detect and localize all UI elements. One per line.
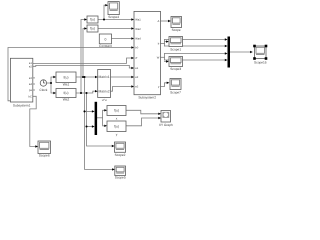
wire Subsystem1 port2 to Subsystem2 in6 [33, 65, 131, 68]
arrow into Mux2 in1 [92, 110, 95, 112]
wire Wa1 output to MatrixGain in1 [76, 76, 95, 78]
arrow into Mux1 in3 [225, 52, 228, 54]
Subsystem1 port stubs [33, 77, 35, 79]
junction dots [50, 18, 105, 127]
Fcn block f(u)2 [87, 25, 98, 32]
svg-text:Wa1: Wa1 [63, 82, 70, 86]
arrow into Subsystem2 in1 [131, 18, 134, 20]
svg-text:iT: iT [135, 57, 138, 60]
arrow into Wa2 [53, 92, 56, 94]
Clock block [40, 80, 46, 86]
svg-text:e2: e2 [135, 76, 138, 79]
arrow into Scope6 [35, 145, 38, 147]
arrow into f(u)y [104, 125, 107, 127]
svg-text:Scope3: Scope3 [170, 67, 181, 71]
wire Constant output to Subsystem2 in3 [112, 38, 132, 40]
wire Subsystem2 out1 to Scope [161, 20, 169, 22]
svg-text:Constant: Constant [99, 44, 112, 48]
svg-text:Scope16: Scope16 [254, 60, 267, 64]
svg-text:Scope2: Scope2 [115, 153, 126, 157]
arrow into Mux1 in1 [225, 38, 228, 40]
scope Scope1 block [169, 37, 183, 47]
wire Mux2 output split to f(u)x f(u)y [97, 117, 103, 119]
Fcn block Wa2 [56, 89, 76, 98]
scope Scope4 block [108, 2, 119, 15]
svg-text:Clock: Clock [39, 88, 47, 92]
svg-text:Matrix1: Matrix1 [99, 75, 110, 79]
svg-text:Scope7: Scope7 [170, 90, 181, 94]
arrow into Subsystem2 in8 [131, 85, 134, 87]
wire branch up to Scope4 [104, 5, 105, 19]
arrow into f(u)1 [84, 18, 87, 20]
arrow into XY Graph in2 [158, 117, 161, 119]
Fcn block f(u)1 [87, 16, 98, 23]
svg-text:Subsystem2: Subsystem2 [138, 95, 156, 99]
wire f(u)y output to XY Graph in2 [126, 118, 158, 126]
svg-text:b0: b0 [135, 47, 138, 50]
arrow into Subsystem2 in7 [131, 76, 134, 78]
arrow into Subsystem2 in6 [131, 67, 134, 69]
arrowheads [35, 4, 253, 171]
svg-text:Scope5: Scope5 [115, 176, 126, 180]
scope Scope5 block (bottom) [115, 166, 126, 176]
arrow into Subsystem2 in2 [131, 27, 134, 29]
arrow into Scope2 [112, 145, 115, 147]
wire Subsystem2 out3 fan to Mux1 in3,in4 [161, 56, 165, 58]
svg-text:e2: e2 [29, 65, 32, 68]
svg-text:Wa2: Wa2 [135, 28, 141, 31]
svg-text:Matrix2: Matrix2 [99, 89, 110, 93]
arrow into Subsystem2 in3 [131, 37, 134, 39]
arrow into Mux1 in4 [225, 59, 228, 61]
arrow into f(u)x [104, 109, 107, 111]
scope Scope6 block (bottom left) [38, 141, 51, 154]
XY Graph block [161, 111, 171, 123]
wire Subsystem2 out4 to Scope7 [161, 83, 167, 87]
svg-text:e3: e3 [135, 86, 138, 89]
svg-text:Subsystem1: Subsystem1 [13, 104, 31, 108]
svg-text:e1: e1 [135, 67, 138, 70]
arrow into Subsystem2 in5 [131, 57, 134, 59]
arrow into Scope16 [250, 51, 253, 53]
wire vertical V2 up to f(u)2 input [83, 29, 84, 78]
wire branch V3 to Mux2 in1 [85, 110, 93, 112]
svg-text:f(u): f(u) [90, 18, 95, 22]
svg-text:Scope: Scope [172, 28, 181, 32]
wire Wa2 output to MatrixGain in2 [76, 91, 95, 93]
Fcn block f(u)x [107, 106, 126, 116]
arrow into f(u)2 [84, 27, 87, 29]
scope Scope3 block [169, 57, 183, 67]
arrow into MatrixGain in2 [95, 90, 98, 92]
arrow into Scope [168, 20, 171, 22]
svg-text:Scope1: Scope1 [170, 47, 181, 51]
svg-text:e4: e4 [29, 83, 32, 86]
junction V3 on Wa1 wire [83, 76, 85, 78]
wire vertical V4 down to Scope2 [87, 93, 112, 146]
arrow into Scope4 [105, 4, 108, 6]
scope Scope2 block (bottom) [115, 142, 126, 152]
arrow into Subsystem2 in4 [131, 46, 134, 48]
svg-text:f(u): f(u) [63, 91, 68, 95]
svg-text:f(u): f(u) [63, 75, 68, 79]
svg-text:f(u): f(u) [114, 109, 119, 113]
wire Mux1 output to Scope16 [230, 51, 250, 53]
svg-text:A: A [158, 20, 160, 23]
wire Clock output branch [47, 82, 51, 84]
Constant block [99, 34, 111, 44]
svg-text:W: W [157, 56, 160, 59]
junction at Scope4 branch [103, 18, 105, 20]
scope Scope16 block (selected) [255, 46, 267, 59]
arrow into Scope1 [166, 40, 169, 42]
wire vertical V1 up to f(u)1 input [81, 20, 84, 94]
wire f(u)1 output to Subsystem2 in1 [98, 19, 131, 21]
wire branch V4 to Mux2 in2 [87, 126, 93, 128]
svg-text:XY Graph: XY Graph [159, 123, 173, 127]
wire f(u)x output to XY Graph in1 [126, 110, 158, 114]
svg-text:f(u): f(u) [90, 27, 95, 31]
Fcn block f(u)y [107, 121, 126, 132]
junction V4 on Wa2 wire [85, 92, 87, 94]
svg-text:f(u): f(u) [114, 124, 119, 128]
arrow into Mux2 in2 [92, 125, 95, 127]
wire Subsystem2 out2 fan to Mux1 in1,in2 [161, 43, 165, 45]
svg-text:Wa4: Wa4 [135, 38, 141, 41]
arrow into XY Graph in1 [158, 113, 161, 115]
scope Scope block [171, 17, 182, 28]
selection handles on Scope16 [253, 45, 267, 60]
svg-text:0: 0 [104, 37, 106, 41]
MatrixGain block [98, 70, 111, 98]
svg-text:bC: bC [28, 95, 31, 98]
wire Subsystem1 port6 to Scope6 [30, 96, 36, 146]
Mux2 bar (bottom center) [95, 102, 98, 135]
svg-text:Scope6: Scope6 [39, 153, 50, 157]
junction V4 to Mux2 [85, 125, 87, 127]
arrow into MatrixGain in1 [95, 76, 98, 78]
junction V3 to Mux2 [83, 110, 85, 112]
wire stub into Scope1 [165, 41, 167, 43]
svg-text:Wa1: Wa1 [135, 19, 141, 22]
svg-text:u*u: u*u [102, 98, 107, 102]
scope Scope7 block [170, 79, 181, 90]
Subsystem2 block (tall center) [134, 11, 161, 94]
junction at Clock branch [50, 82, 52, 84]
wire Subsystem1 port1 to Subsystem2 in5 [33, 58, 131, 63]
arrow into Scope3 [166, 60, 169, 62]
arrow into Scope7 [167, 82, 170, 84]
svg-text:pa: pa [29, 89, 32, 92]
Subsystem1 block [10, 58, 32, 102]
wire feedback loop to Subsystem2 in4 [8, 48, 131, 101]
wire vertical V3 down to Scope5 [85, 77, 113, 169]
Fcn block Wa1 [56, 72, 76, 83]
junction V1 on Wa2 wire [80, 92, 82, 94]
wire MatrixGain out2 to Subsystem2 in8 [111, 87, 132, 92]
wire stub into Scope3 [165, 61, 167, 63]
junction V2 on Wa1 wire [82, 76, 84, 78]
svg-text:Scope4: Scope4 [108, 15, 119, 19]
arrow into Mux1 in2 [225, 45, 228, 47]
Mux1 bar (top right) [228, 37, 231, 68]
arrow into Scope5 [112, 168, 115, 170]
svg-text:Wa2: Wa2 [63, 97, 70, 101]
arrow into Wa1 [53, 76, 56, 78]
wire f(u)2 output to Subsystem2 in2 [98, 28, 131, 30]
wire MatrixGain out1 to Subsystem2 in7 [111, 76, 132, 78]
svg-text:e3: e3 [29, 77, 32, 80]
